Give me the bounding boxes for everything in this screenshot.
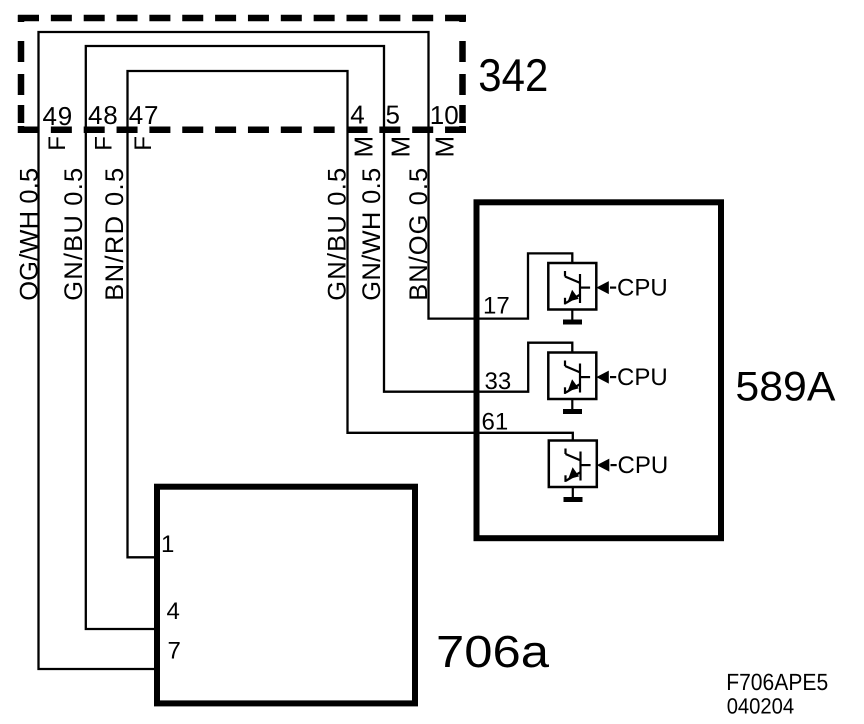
svg-text:M: M: [349, 136, 379, 158]
svg-text:33: 33: [485, 368, 512, 395]
svg-text:17: 17: [483, 293, 510, 320]
svg-text:1: 1: [161, 531, 174, 558]
svg-text:OG/WH 0.5: OG/WH 0.5: [16, 168, 44, 301]
svg-text:589A: 589A: [735, 363, 835, 410]
svg-text:F: F: [90, 136, 117, 151]
svg-text:47: 47: [129, 100, 160, 130]
svg-text:BN/RD 0.5: BN/RD 0.5: [101, 168, 129, 301]
svg-text:10: 10: [430, 100, 459, 130]
svg-text:4: 4: [167, 598, 180, 625]
svg-text:61: 61: [482, 409, 509, 436]
svg-text:342: 342: [478, 49, 548, 101]
svg-text:5: 5: [386, 100, 400, 130]
svg-text:GN/WH 0.5: GN/WH 0.5: [358, 168, 386, 301]
svg-text:M: M: [385, 136, 415, 158]
svg-text:49: 49: [43, 101, 74, 131]
svg-text:4: 4: [350, 100, 364, 130]
svg-text:48: 48: [88, 100, 119, 130]
svg-text:F: F: [44, 136, 71, 151]
svg-text:706a: 706a: [436, 626, 550, 677]
svg-text:040204: 040204: [727, 694, 795, 719]
svg-text:F706APE5: F706APE5: [726, 669, 828, 695]
svg-text:F: F: [130, 136, 157, 151]
svg-text:M: M: [430, 136, 460, 158]
svg-text:BN/OG 0.5: BN/OG 0.5: [405, 168, 433, 301]
svg-text:7: 7: [168, 638, 181, 665]
